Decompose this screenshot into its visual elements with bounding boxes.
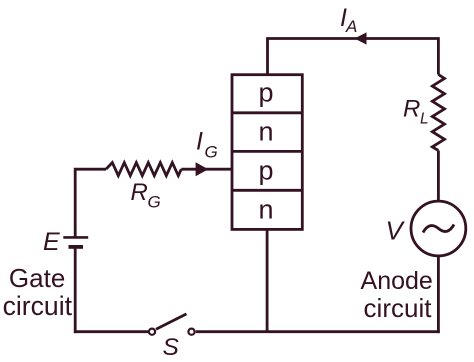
wire battery to bottom <box>74 247 77 333</box>
svg-text:V: V <box>386 216 406 246</box>
resistor RG <box>106 163 181 176</box>
svg-text:R: R <box>131 179 148 206</box>
label R_L <box>403 96 429 128</box>
svg-text:G: G <box>205 143 218 162</box>
svg-text:A: A <box>345 17 357 36</box>
svg-text:G: G <box>148 193 161 212</box>
wire bottom right <box>196 330 440 333</box>
layer label p1 <box>258 78 273 108</box>
svg-text:L: L <box>420 111 429 128</box>
label I_A <box>340 4 357 36</box>
wire RG to gate <box>181 168 233 171</box>
svg-text:S: S <box>163 334 180 361</box>
svg-text:Anode: Anode <box>361 267 433 295</box>
layer label p2 <box>258 156 273 186</box>
arrow IG gate current <box>196 162 209 176</box>
label E <box>43 228 60 256</box>
wire cathode lead <box>266 229 269 331</box>
svg-text:E: E <box>43 228 60 256</box>
svg-text:circuit: circuit <box>364 293 433 323</box>
label R_G <box>131 179 161 212</box>
wire bottom left <box>74 330 148 333</box>
label I_G <box>196 127 218 161</box>
switch S <box>149 314 195 335</box>
svg-text:R: R <box>403 96 420 123</box>
svg-text:n: n <box>258 117 273 147</box>
svg-text:Gate: Gate <box>9 263 65 293</box>
svg-text:p: p <box>258 156 273 186</box>
text Anode circuit <box>361 267 433 323</box>
resistor RL <box>432 75 444 151</box>
svg-text:n: n <box>258 195 273 225</box>
svg-text:circuit: circuit <box>3 291 73 321</box>
wire RL to source <box>437 151 440 203</box>
svg-text:p: p <box>258 78 273 108</box>
layer label n2 <box>258 195 273 225</box>
wire top anode loop <box>268 39 439 77</box>
label V <box>386 216 406 246</box>
layer label n1 <box>258 117 273 147</box>
wire gate left and down to battery <box>75 169 106 237</box>
thyristor pnpn box <box>232 75 302 230</box>
svg-text:I: I <box>196 127 203 155</box>
text Gate circuit <box>3 263 73 321</box>
wire source to bottom <box>437 256 440 333</box>
label S <box>163 334 180 361</box>
AC source V circle <box>411 201 466 256</box>
arrow IA current direction <box>355 32 367 44</box>
battery E <box>63 237 88 247</box>
